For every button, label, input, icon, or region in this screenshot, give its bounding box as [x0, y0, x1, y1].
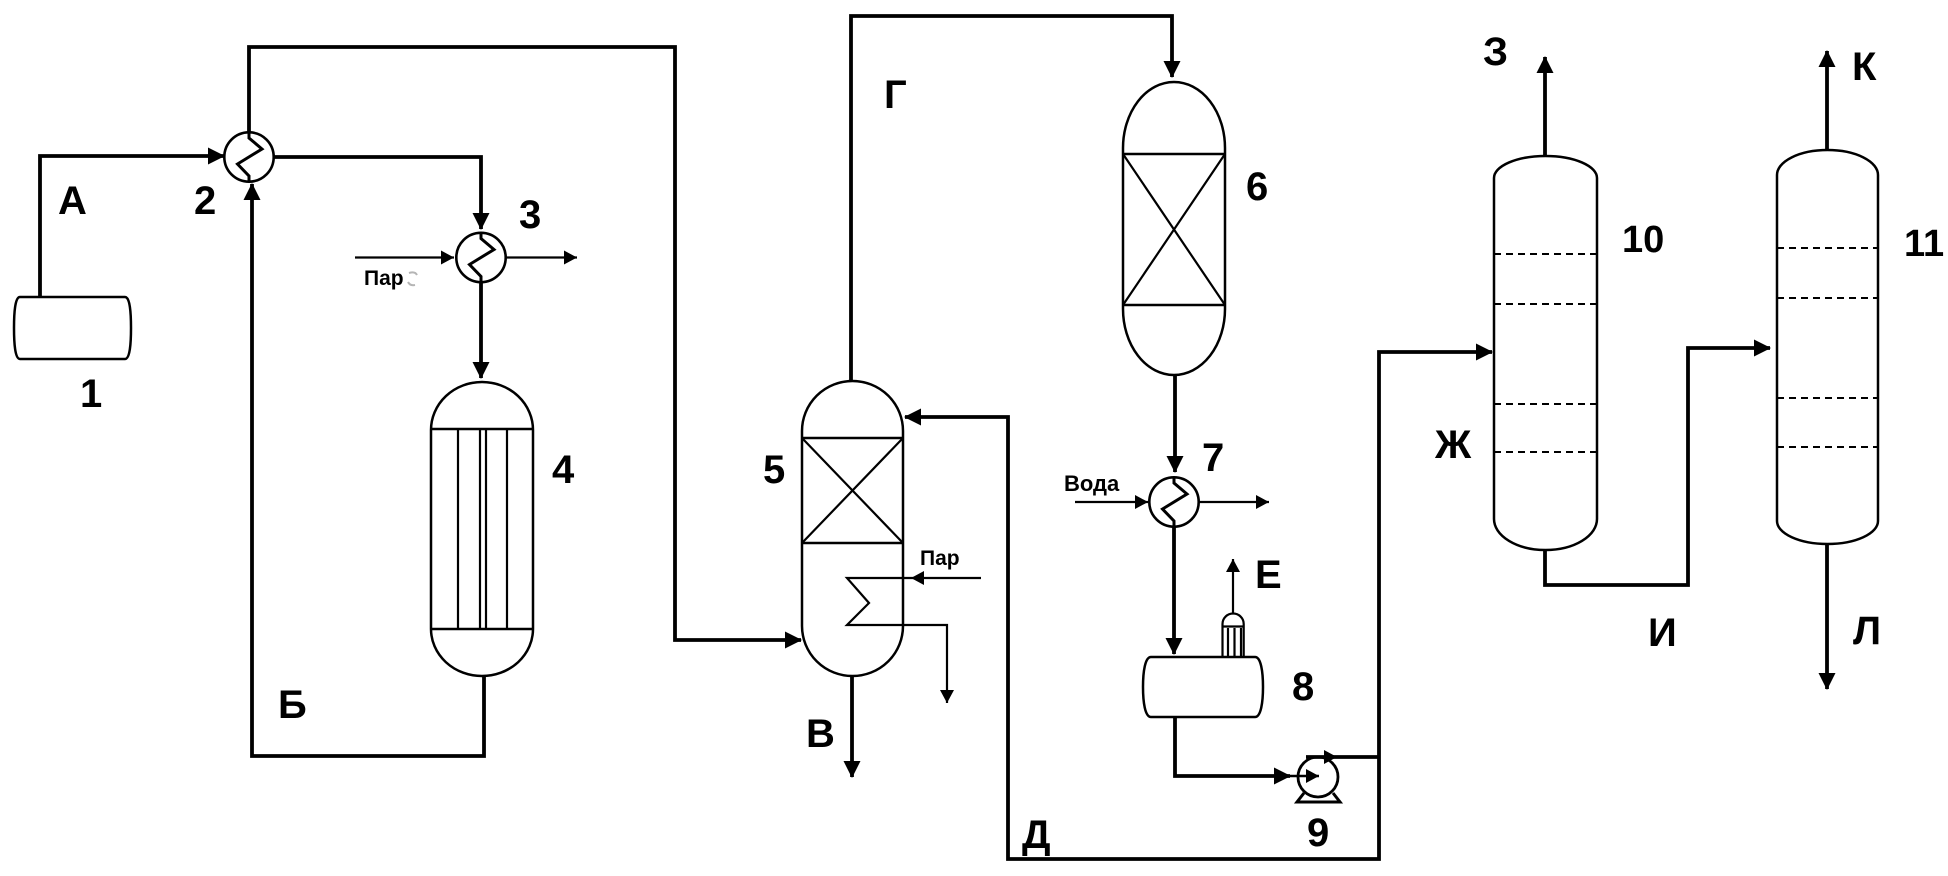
svg-text:Л: Л	[1853, 609, 1881, 653]
wire stream Г column 5 overhead to column 6	[851, 16, 1172, 381]
wire stream Л column 11 bottoms	[1825, 544, 1829, 689]
heat exchanger 3	[456, 233, 505, 282]
svg-text:З: З	[1483, 30, 1508, 74]
pump suction arrow into casing	[1290, 775, 1319, 778]
vessel 1	[14, 297, 131, 359]
svg-text:И: И	[1648, 611, 1677, 655]
svg-text:Пар: Пар	[920, 547, 960, 570]
reboiler steam inlet line (Пар)	[911, 577, 981, 579]
svg-text:Е: Е	[1255, 553, 1282, 597]
wire HX2 top loop to column 5 feed	[249, 47, 801, 640]
drum 8	[1143, 657, 1263, 717]
wire stream З column 10 overhead	[1543, 57, 1547, 156]
svg-text:1: 1	[80, 372, 102, 416]
svg-text:11: 11	[1904, 223, 1944, 265]
faint print artifact after Пар	[408, 272, 417, 285]
svg-text:В: В	[806, 712, 835, 756]
wire riser to column 10 feed (Ж)	[1379, 352, 1492, 757]
wire HX3 to reactor 4	[479, 283, 483, 378]
pump 9	[1297, 757, 1340, 802]
wire stream Д recycle to column 5	[905, 417, 1379, 859]
heat exchanger 2	[224, 132, 273, 181]
reboiler coil in column 5	[847, 578, 947, 703]
wire HX7 to drum 8	[1172, 527, 1176, 654]
wire stream К column 11 overhead	[1825, 51, 1829, 150]
water outlet line from HX7	[1199, 501, 1270, 503]
svg-text:А: А	[58, 179, 87, 223]
pump discharge arrow	[1320, 756, 1337, 759]
svg-text:5: 5	[763, 448, 785, 492]
svg-text:Пар: Пар	[364, 267, 404, 290]
column 11	[1777, 150, 1878, 544]
wire HX2 to HX3	[274, 157, 481, 229]
vent nozzle on drum 8	[1223, 614, 1244, 657]
reactor 4	[431, 382, 533, 676]
svg-text:Д: Д	[1022, 813, 1051, 857]
vent line stream Е	[1232, 559, 1234, 613]
wire drum 8 to pump 9	[1175, 717, 1290, 776]
svg-text:6: 6	[1246, 165, 1268, 209]
svg-text:9: 9	[1307, 811, 1329, 855]
column 6	[1123, 82, 1225, 375]
wire stream A from vessel 1 to heat exchanger 2	[40, 156, 224, 297]
svg-text:3: 3	[519, 193, 541, 237]
heat exchanger 7	[1149, 477, 1198, 526]
svg-text:Г: Г	[884, 73, 907, 117]
steam inlet line to HX3	[355, 256, 454, 258]
svg-text:4: 4	[552, 448, 575, 492]
svg-text:К: К	[1852, 45, 1877, 89]
svg-text:7: 7	[1202, 436, 1224, 480]
svg-text:Вода: Вода	[1064, 471, 1120, 496]
pump discharge wire	[1306, 755, 1379, 759]
wire column 6 to HX7	[1173, 375, 1177, 472]
svg-text:Ж: Ж	[1434, 423, 1472, 467]
wire stream И column 10 bottoms to column 11	[1545, 348, 1770, 585]
steam outlet line from HX3	[507, 256, 578, 258]
svg-text:Б: Б	[278, 683, 307, 727]
svg-text:2: 2	[194, 179, 216, 223]
wire stream В column 5 bottoms	[850, 676, 854, 777]
wire stream Б reactor 4 bottom to HX2	[252, 184, 484, 756]
svg-text:8: 8	[1292, 665, 1314, 709]
column 5	[802, 381, 903, 676]
column 10	[1494, 156, 1597, 550]
svg-text:10: 10	[1622, 219, 1664, 261]
water inlet line to HX7	[1075, 501, 1148, 503]
